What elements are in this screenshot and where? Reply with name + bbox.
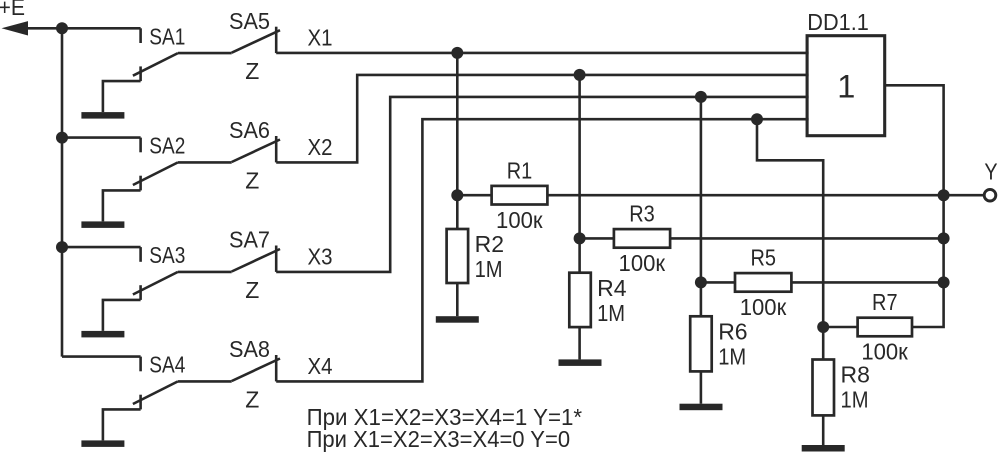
switch SA4 [133,357,178,410]
svg-text:R8: R8 [841,362,870,388]
svg-text:SA1: SA1 [149,23,185,49]
switch SA1 [133,28,178,81]
svg-text:SA5: SA5 [229,8,270,34]
svg-text:R5: R5 [750,245,776,271]
wire vertical +E bus [61,28,64,356]
wire R4 to ground [578,327,581,359]
net +E arrow (supply) [2,21,29,35]
wire SA3 ground branch [103,300,141,331]
wire junction to R4 [578,238,581,272]
svg-text:R1: R1 [507,157,533,183]
wire junction to R6 [700,282,703,316]
svg-text:SA8: SA8 [229,336,270,362]
resistor R5 [735,273,791,292]
wire X3 tap down to R5/R6 [700,97,703,283]
wire X4 net [276,119,808,381]
wire SA2 common to SA6 [178,161,232,164]
node X1 tap junction [451,47,463,59]
svg-text:Y: Y [984,159,997,185]
ground (SA4 branch) [81,440,124,447]
svg-text:SA7: SA7 [229,227,270,253]
wire R5 to right vertical [791,281,943,284]
node R1/R2 junction [451,189,463,201]
wire Y node to terminal [944,194,983,197]
svg-text:R6: R6 [718,318,747,344]
node R3/R4 junction [574,232,586,244]
wire X2 tap down to R3/R4 [578,75,581,239]
resistor R3 [614,229,670,248]
svg-text:X1: X1 [308,25,333,51]
svg-text:Z: Z [245,167,259,193]
wire right vertical Y bus [942,195,945,238]
node Y junction [938,189,950,201]
svg-text:DD1.1: DD1.1 [807,9,869,35]
node R7/R8 junction [817,321,829,333]
switch SA8 [232,355,280,381]
wire junction to R1 [457,194,491,197]
svg-text:X4: X4 [308,353,333,379]
ground (R8) [802,445,845,452]
node X3 tap junction [695,91,707,103]
switch SA7 [232,246,280,272]
wire R3 to right vertical [670,237,944,240]
resistor R8 [813,360,835,416]
ground (R2) [436,316,479,323]
wire R1 to Y node [547,194,943,197]
node bus junction row 2 [56,132,68,144]
wire X2 net [276,75,808,162]
ground (SA1 branch) [81,112,124,119]
wire SA4 common to SA8 [178,380,232,383]
wire DD1.1 output [885,85,944,195]
wire junction to R2 [456,195,459,229]
wire R2 to ground [456,283,459,316]
svg-text:SA2: SA2 [149,133,185,159]
ground (SA3 branch) [81,331,124,338]
wire bus to SA2 [62,136,141,139]
node X4 tap junction [751,113,763,125]
svg-text:SA6: SA6 [229,117,270,143]
svg-text:Z: Z [245,58,259,84]
wire X1 tap down to R1/R2 [456,53,459,195]
resistor R4 [569,273,591,327]
svg-text:При X1=X2=X3=X4=0 Y=0: При X1=X2=X3=X4=0 Y=0 [307,426,570,452]
wire X4 tap down to R7/R8 [757,119,823,327]
wire junction to R5 [701,281,735,284]
svg-text:R7: R7 [872,289,898,315]
ground (R6) [680,404,723,411]
node R5/R6 junction [695,276,707,288]
node R3 output junction [938,232,950,244]
svg-text:X2: X2 [308,134,333,160]
switch SA2 [133,138,178,191]
switch SA6 [232,136,280,162]
op element DD1.1 (OR gate box) [807,36,885,136]
svg-text:100к: 100к [496,207,543,233]
wire bus to SA3 [62,246,141,249]
svg-text:Z: Z [245,386,259,412]
terminal Y (open circle) [984,189,996,201]
wire SA3 common to SA7 [178,271,232,274]
svg-text:R3: R3 [629,201,655,227]
wire R6 to ground [700,371,703,403]
wire junction to R3 [580,237,614,240]
node R5 output junction [938,276,950,288]
wire bus to SA4 [62,355,141,358]
resistor R2 [447,229,469,283]
svg-text:+E: +E [0,0,25,20]
resistor R1 [492,186,548,205]
wire X1 net [276,52,808,55]
node bus junction row 3 [56,241,68,253]
svg-text:1М: 1М [718,343,746,369]
switch SA5 [232,27,280,53]
wire X3 net [276,97,808,272]
svg-text:1М: 1М [475,256,503,282]
ground (R4) [559,359,602,366]
ground (SA2 branch) [81,221,124,228]
svg-text:R4: R4 [597,275,627,301]
wire junction to R7 [823,326,857,329]
svg-text:1М: 1М [597,300,625,326]
resistor R6 [690,316,712,371]
svg-text:Z: Z [245,277,259,303]
wire R7 to right vertical [912,282,944,327]
svg-text:1: 1 [837,68,855,104]
wire bus to SA1 [62,27,141,30]
wire arrow to bus node [26,27,62,30]
svg-text:SA3: SA3 [149,242,185,268]
wire SA2 ground branch [103,190,141,221]
wire SA1 common to SA5 [178,52,232,55]
svg-text:R2: R2 [475,231,504,257]
svg-text:100к: 100к [619,250,666,276]
svg-text:100к: 100к [740,294,787,320]
svg-text:1М: 1М [841,387,869,413]
wire SA1 ground branch [103,81,141,112]
svg-text:SA4: SA4 [149,352,185,378]
node bus junction row 1 [56,22,68,34]
wire junction to R8 [822,327,825,360]
resistor R7 [858,318,912,337]
svg-text:X3: X3 [308,243,333,269]
wire SA4 ground branch [103,409,141,440]
node X2 tap junction [574,69,586,81]
wire R8 to ground [822,415,825,445]
switch SA3 [133,247,178,300]
